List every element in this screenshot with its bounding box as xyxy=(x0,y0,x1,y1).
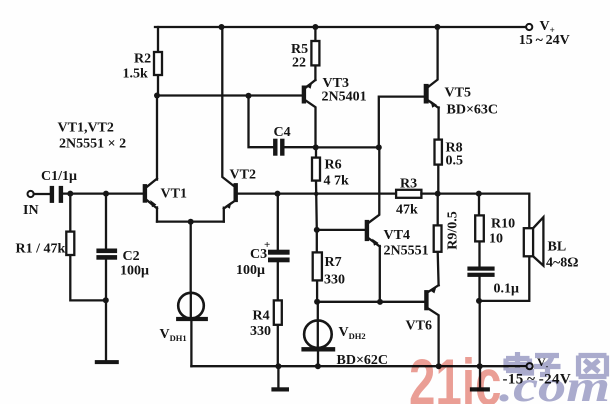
svg-text:R10: R10 xyxy=(491,217,515,232)
svg-text:2N5551: 2N5551 xyxy=(384,244,429,259)
resistor R10 xyxy=(475,194,484,268)
svg-text:R3: R3 xyxy=(400,177,417,192)
node zobel / speaker return xyxy=(476,298,482,304)
svg-text:BL: BL xyxy=(548,240,567,255)
resistor R9 xyxy=(434,194,442,286)
wire C4 branch xyxy=(249,96,274,147)
diode VDH1 xyxy=(177,293,208,367)
wire VT3 collector to VT5 base drop xyxy=(316,146,379,148)
svg-text:VT6: VT6 xyxy=(406,319,432,334)
svg-text:C4: C4 xyxy=(274,125,291,140)
svg-text:+: + xyxy=(264,239,270,251)
resistor R1 xyxy=(66,194,106,301)
wire bias row to VT6 base xyxy=(317,301,424,303)
svg-text:2N5401: 2N5401 xyxy=(322,90,367,105)
terminal IN xyxy=(28,191,51,197)
node C3 tap xyxy=(275,191,281,197)
resistor R7 xyxy=(313,230,322,302)
svg-text:C2: C2 xyxy=(123,249,140,264)
node R1 top xyxy=(67,191,73,197)
wire top positive supply rail xyxy=(155,26,526,28)
svg-text:R1 / 47k: R1 / 47k xyxy=(16,242,66,257)
svg-text:VT5: VT5 xyxy=(445,86,471,101)
svg-text:VT4: VT4 xyxy=(384,228,410,243)
wire VT2 collector vertical xyxy=(222,27,234,186)
node R8 bottom / R9 top xyxy=(435,191,441,197)
node top rail / R5 junction xyxy=(312,24,318,30)
resistor R3 xyxy=(396,190,421,198)
svg-text:C1/1μ: C1/1μ xyxy=(41,169,77,184)
node R2/VT1 collector xyxy=(154,93,160,99)
transistor VT5 xyxy=(424,27,438,140)
svg-text:VDH1: VDH1 xyxy=(160,327,187,343)
capacitor 0.1u xyxy=(468,267,494,301)
svg-text:IN: IN xyxy=(23,203,39,218)
node VT3 collector / R6 / C4 xyxy=(313,144,319,150)
transistor VT2 xyxy=(224,184,238,222)
node rail/VT6 xyxy=(436,363,442,369)
resistor R8 xyxy=(435,140,442,194)
node R6 crossing blob xyxy=(314,192,318,196)
svg-text:VDH2: VDH2 xyxy=(339,325,366,341)
node rail/VDH2 xyxy=(315,363,321,369)
resistor R5 xyxy=(311,27,319,80)
ground below rail right xyxy=(470,366,489,391)
svg-text:15 ~ 24V: 15 ~ 24V xyxy=(519,33,570,48)
wire VT4 collector to VT5 base xyxy=(379,97,424,148)
svg-text:VT1,VT2: VT1,VT2 xyxy=(58,121,114,136)
node R1/C2 bottom xyxy=(103,297,109,303)
terminal V- xyxy=(527,363,533,369)
capacitor C4 xyxy=(274,139,316,155)
svg-text:4~8Ω: 4~8Ω xyxy=(546,256,579,271)
ground C2 xyxy=(95,361,118,364)
svg-text:0.5: 0.5 xyxy=(446,154,464,169)
svg-text:VT2: VT2 xyxy=(230,168,256,183)
svg-text:2N5551 × 2: 2N5551 × 2 xyxy=(59,137,126,152)
wire bottom negative rail xyxy=(191,365,525,367)
svg-text:21ic: 21ic xyxy=(409,346,501,404)
svg-text:BD×63C: BD×63C xyxy=(447,103,499,118)
svg-text:0.1μ: 0.1μ xyxy=(494,282,520,297)
resistor R4 xyxy=(274,300,282,366)
svg-text:4 7k: 4 7k xyxy=(324,174,350,189)
wire tail to VDH1 xyxy=(190,222,192,293)
svg-text:R4: R4 xyxy=(253,309,270,324)
wire output node xyxy=(421,194,529,229)
svg-text:10: 10 xyxy=(489,232,503,247)
node VT4 emitter xyxy=(377,299,383,305)
node top rail / VT2 collector junction xyxy=(219,24,225,30)
terminal V+ xyxy=(526,24,532,30)
node C2 top xyxy=(103,191,109,197)
capacitor C1 xyxy=(50,186,143,202)
wire VT1 collector bus to VT3 base xyxy=(157,94,302,96)
svg-text:22: 22 xyxy=(292,56,306,71)
capacitor C3 xyxy=(269,194,290,301)
wire VT2 base to R3 xyxy=(237,192,396,194)
node R6/R7/VT4 base xyxy=(314,227,320,233)
node emitter tail xyxy=(188,219,194,225)
transistor VT4 xyxy=(365,147,380,301)
wire speaker return xyxy=(479,256,529,366)
svg-text:100μ: 100μ xyxy=(120,264,149,279)
node rail/R4 xyxy=(275,363,281,369)
node rail/zobel xyxy=(477,363,483,369)
svg-text:47k: 47k xyxy=(396,203,418,218)
svg-text:330: 330 xyxy=(250,324,271,339)
svg-text:R9/0.5: R9/0.5 xyxy=(446,211,461,250)
capacitor C2 xyxy=(97,194,117,361)
svg-text:1.5k: 1.5k xyxy=(123,67,149,82)
svg-text:330: 330 xyxy=(324,273,345,288)
transistor VT3 xyxy=(302,80,315,147)
svg-text:BD×62C: BD×62C xyxy=(337,353,389,368)
node VT5 base drop xyxy=(376,144,382,150)
watermark xyxy=(409,346,610,404)
resistor R2 xyxy=(154,27,162,96)
svg-text:100μ: 100μ xyxy=(236,263,265,278)
transistor VT1 xyxy=(143,96,157,222)
svg-text:R6: R6 xyxy=(325,158,342,173)
node R7/VDH2 xyxy=(314,299,320,305)
transistor VT6 xyxy=(425,285,439,366)
node C4 tap xyxy=(246,93,252,99)
diode VDH2 xyxy=(302,302,335,366)
node R10 top xyxy=(476,191,482,197)
svg-text:R2: R2 xyxy=(134,52,151,67)
speaker BL xyxy=(524,217,544,265)
ground below rail at R4 xyxy=(272,366,289,391)
svg-text:VT1: VT1 xyxy=(161,187,187,202)
wire emitter join VT1-VT2 xyxy=(157,220,224,222)
wire R6 to VT4 base xyxy=(317,229,365,231)
watermark CJK dianziwang xyxy=(506,352,607,377)
resistor R6 xyxy=(312,147,320,229)
svg-text:R7: R7 xyxy=(325,255,342,270)
node top rail / VT5 collector junction xyxy=(434,24,440,30)
